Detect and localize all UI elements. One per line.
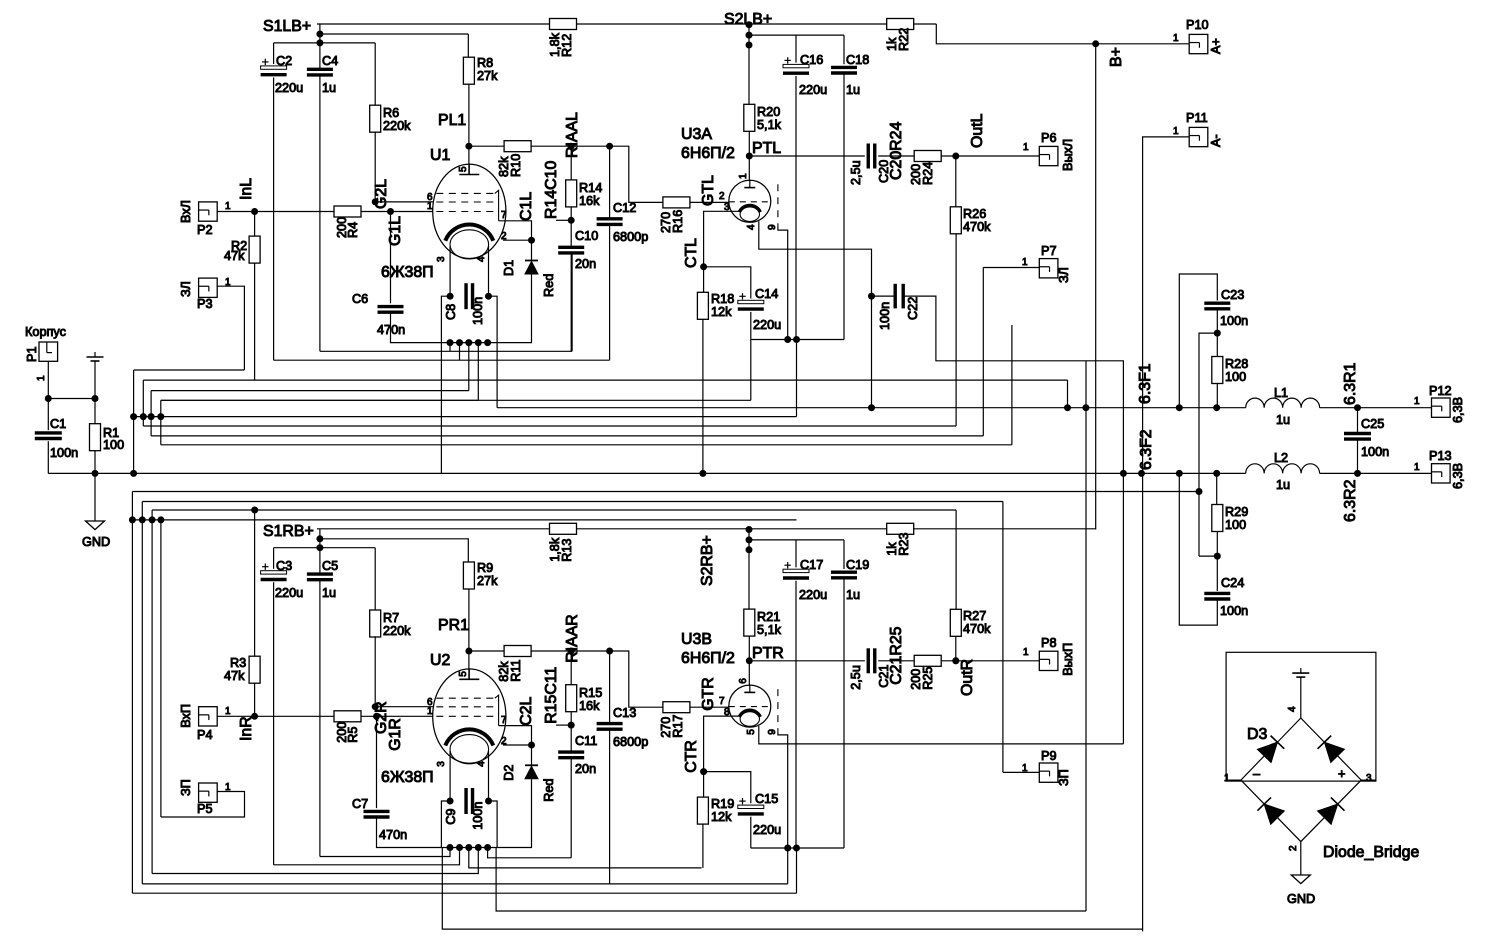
svg-text:R3: R3: [230, 656, 246, 670]
svg-text:P6: P6: [1041, 131, 1057, 145]
svg-text:27k: 27k: [477, 69, 498, 83]
svg-text:1: 1: [1023, 647, 1029, 658]
svg-text:R20: R20: [757, 105, 780, 119]
svg-text:R7: R7: [383, 611, 399, 625]
svg-text:A-: A-: [1209, 134, 1223, 147]
svg-text:R25: R25: [921, 667, 935, 690]
svg-text:R12: R12: [560, 34, 574, 57]
svg-text:R18: R18: [711, 292, 734, 306]
svg-text:C20R24: C20R24: [888, 122, 905, 180]
svg-text:PL1: PL1: [438, 112, 466, 129]
svg-text:1: 1: [1224, 773, 1230, 784]
svg-text:C9: C9: [444, 809, 458, 825]
svg-text:1: 1: [1023, 142, 1029, 153]
svg-text:R14: R14: [579, 181, 602, 195]
svg-text:1: 1: [1022, 257, 1028, 268]
svg-text:4: 4: [476, 761, 487, 767]
svg-text:1: 1: [225, 201, 231, 212]
svg-text:1u: 1u: [322, 586, 336, 600]
svg-text:PTR: PTR: [752, 645, 784, 662]
svg-text:U3A: U3A: [681, 126, 712, 143]
svg-text:ЗП: ЗП: [179, 779, 193, 796]
svg-text:7: 7: [501, 210, 507, 221]
svg-text:2: 2: [719, 191, 725, 202]
svg-text:1: 1: [1173, 33, 1179, 44]
svg-text:G1R: G1R: [387, 718, 404, 751]
svg-text:C16: C16: [800, 53, 823, 67]
svg-text:R6: R6: [383, 106, 399, 120]
svg-text:ВхП: ВхП: [179, 704, 193, 728]
svg-text:S1RB+: S1RB+: [263, 523, 314, 540]
svg-text:R28: R28: [1225, 357, 1248, 371]
svg-text:P9: P9: [1041, 749, 1057, 763]
svg-text:9: 9: [767, 729, 778, 735]
svg-text:C2L: C2L: [518, 696, 535, 725]
svg-text:7: 7: [501, 715, 507, 726]
svg-text:G2L: G2L: [373, 179, 390, 209]
svg-text:ЗЛ: ЗЛ: [1057, 267, 1071, 283]
svg-text:5: 5: [746, 729, 757, 735]
svg-text:C10: C10: [575, 229, 598, 243]
svg-text:C12: C12: [613, 201, 636, 215]
svg-text:1u: 1u: [322, 81, 336, 95]
svg-text:C7: C7: [352, 797, 368, 811]
svg-text:C19: C19: [846, 558, 869, 572]
svg-text:470n: 470n: [379, 828, 407, 842]
svg-text:C11: C11: [575, 734, 597, 748]
svg-text:6: 6: [738, 678, 749, 684]
svg-text:R16: R16: [671, 210, 685, 233]
svg-text:ЗП: ЗП: [1057, 769, 1071, 786]
svg-text:InL: InL: [238, 178, 255, 200]
svg-text:1: 1: [225, 706, 231, 717]
svg-text:12k: 12k: [711, 810, 732, 824]
svg-text:6Н6П/2: 6Н6П/2: [681, 650, 735, 667]
svg-text:5,1k: 5,1k: [757, 118, 782, 132]
svg-text:C6: C6: [352, 292, 368, 306]
svg-text:U1: U1: [430, 147, 450, 164]
svg-text:P2: P2: [197, 223, 213, 237]
svg-text:R27: R27: [963, 609, 986, 623]
svg-text:100n: 100n: [1361, 445, 1389, 459]
svg-text:PTL: PTL: [752, 140, 781, 157]
svg-text:100: 100: [1225, 370, 1246, 384]
svg-text:220u: 220u: [753, 318, 781, 332]
svg-text:D1: D1: [502, 260, 516, 276]
svg-text:R13: R13: [560, 539, 574, 562]
svg-text:B+: B+: [1108, 47, 1125, 67]
svg-text:16k: 16k: [579, 194, 600, 208]
svg-text:1u: 1u: [846, 83, 860, 97]
svg-text:6.3F2: 6.3F2: [1138, 429, 1155, 470]
svg-text:OutL: OutL: [969, 113, 986, 148]
svg-text:6,3В: 6,3В: [1451, 463, 1465, 489]
svg-text:C18: C18: [846, 53, 869, 67]
svg-text:5,1k: 5,1k: [757, 623, 782, 637]
svg-text:R14C10: R14C10: [543, 161, 560, 219]
svg-text:PR1: PR1: [438, 617, 469, 634]
svg-text:R21: R21: [757, 610, 780, 624]
svg-text:1: 1: [36, 375, 47, 381]
svg-text:C1L: C1L: [518, 192, 535, 221]
svg-text:P5: P5: [197, 802, 213, 816]
svg-text:220u: 220u: [753, 823, 781, 837]
svg-text:C5: C5: [322, 559, 338, 573]
svg-text:Корпус: Корпус: [25, 325, 67, 339]
svg-text:R8: R8: [477, 56, 493, 70]
svg-text:P3: P3: [197, 297, 213, 311]
svg-text:220u: 220u: [275, 81, 303, 95]
svg-text:GTR: GTR: [700, 677, 717, 711]
svg-text:GND: GND: [1287, 892, 1315, 906]
svg-text:R15C11: R15C11: [543, 667, 560, 724]
svg-text:C14: C14: [755, 287, 778, 301]
svg-text:7: 7: [719, 696, 725, 707]
svg-text:220u: 220u: [275, 586, 303, 600]
svg-text:5: 5: [458, 166, 469, 172]
svg-text:P1: P1: [25, 346, 39, 362]
svg-text:S2RB+: S2RB+: [699, 535, 716, 586]
svg-text:P8: P8: [1041, 636, 1057, 650]
svg-text:S1LB+: S1LB+: [263, 18, 311, 35]
svg-text:6.3R1: 6.3R1: [1342, 362, 1359, 405]
svg-text:R9: R9: [477, 561, 493, 575]
svg-text:R19: R19: [711, 797, 734, 811]
svg-text:220k: 220k: [383, 119, 411, 133]
svg-text:R29: R29: [1225, 505, 1248, 519]
svg-text:C1: C1: [50, 417, 66, 431]
svg-text:D3: D3: [1247, 726, 1267, 743]
svg-text:GTL: GTL: [700, 175, 717, 206]
svg-text:1: 1: [738, 173, 749, 179]
svg-text:470k: 470k: [963, 220, 991, 234]
svg-text:A+: A+: [1209, 38, 1223, 54]
svg-text:L2: L2: [1274, 451, 1288, 465]
svg-text:RIAAR: RIAAR: [564, 614, 581, 663]
svg-text:C21R25: C21R25: [888, 626, 905, 684]
svg-text:6,3В: 6,3В: [1451, 397, 1465, 423]
svg-text:20n: 20n: [575, 762, 596, 776]
svg-text:1u: 1u: [1276, 478, 1290, 492]
svg-text:C15: C15: [755, 792, 778, 806]
svg-text:R17: R17: [671, 715, 685, 738]
svg-text:CTL: CTL: [683, 238, 700, 268]
svg-text:6.3F1: 6.3F1: [1137, 363, 1154, 404]
svg-text:6Н6П/2: 6Н6П/2: [681, 145, 735, 162]
svg-text:1: 1: [427, 706, 433, 717]
svg-text:100n: 100n: [878, 302, 892, 330]
svg-text:5: 5: [458, 671, 469, 677]
svg-text:1: 1: [1414, 396, 1420, 407]
svg-text:G1L: G1L: [387, 216, 404, 246]
svg-text:R22: R22: [897, 28, 911, 51]
svg-text:1: 1: [1414, 462, 1420, 473]
svg-text:4: 4: [1287, 706, 1298, 712]
svg-text:47k: 47k: [224, 249, 245, 263]
svg-text:ВхЛ: ВхЛ: [179, 200, 193, 223]
svg-text:470k: 470k: [963, 622, 991, 636]
svg-text:470n: 470n: [377, 323, 405, 337]
svg-text:20n: 20n: [575, 257, 596, 271]
svg-text:+: +: [1338, 767, 1345, 781]
svg-text:CTR: CTR: [683, 740, 700, 773]
svg-text:RIAAL: RIAAL: [564, 112, 581, 158]
svg-text:R11: R11: [509, 659, 523, 681]
svg-text:R4: R4: [346, 222, 360, 238]
svg-text:6.3R2: 6.3R2: [1342, 479, 1359, 522]
svg-text:2,5u: 2,5u: [849, 160, 863, 185]
svg-text:100: 100: [1225, 518, 1246, 532]
svg-text:R15: R15: [579, 686, 602, 700]
svg-text:P11: P11: [1186, 111, 1208, 125]
svg-text:Diode_Bridge: Diode_Bridge: [1323, 844, 1419, 861]
svg-text:2: 2: [1288, 845, 1299, 851]
svg-text:C23: C23: [1221, 288, 1244, 302]
svg-text:220k: 220k: [383, 624, 411, 638]
svg-text:C4: C4: [322, 54, 338, 68]
svg-text:3: 3: [436, 256, 447, 262]
svg-text:6Ж38П: 6Ж38П: [381, 264, 434, 281]
svg-text:16k: 16k: [579, 699, 600, 713]
svg-text:C22: C22: [906, 297, 920, 320]
svg-text:100n: 100n: [1220, 604, 1248, 618]
svg-text:ВыхП: ВыхП: [1061, 643, 1075, 676]
svg-text:4: 4: [746, 224, 757, 230]
svg-text:P10: P10: [1186, 18, 1209, 32]
svg-text:6Ж38П: 6Ж38П: [381, 769, 434, 786]
svg-text:R26: R26: [963, 207, 986, 221]
svg-text:1u: 1u: [846, 588, 860, 602]
svg-text:InR: InR: [238, 716, 255, 741]
svg-text:C25: C25: [1361, 417, 1384, 431]
svg-text:220u: 220u: [799, 83, 827, 97]
svg-text:OutR: OutR: [959, 659, 976, 696]
svg-text:1: 1: [1173, 126, 1179, 137]
svg-text:–: –: [1253, 767, 1261, 781]
svg-text:1u: 1u: [1276, 413, 1290, 427]
svg-text:C13: C13: [613, 706, 636, 720]
svg-text:12k: 12k: [711, 305, 732, 319]
svg-text:P7: P7: [1041, 244, 1057, 258]
svg-text:R5: R5: [346, 727, 360, 743]
svg-text:1: 1: [427, 201, 433, 212]
svg-text:ВыхЛ: ВыхЛ: [1061, 139, 1075, 171]
svg-text:R10: R10: [509, 154, 523, 177]
svg-text:R24: R24: [921, 162, 935, 185]
svg-text:P13: P13: [1429, 449, 1452, 463]
svg-text:4: 4: [476, 256, 487, 262]
svg-text:D2: D2: [502, 765, 516, 781]
svg-text:C8: C8: [444, 304, 458, 320]
svg-text:C17: C17: [800, 558, 823, 572]
svg-text:100: 100: [103, 438, 124, 452]
svg-text:220u: 220u: [799, 588, 827, 602]
svg-text:47k: 47k: [224, 669, 245, 683]
svg-text:R23: R23: [897, 533, 911, 556]
svg-text:C24: C24: [1221, 576, 1244, 590]
svg-text:P12: P12: [1429, 384, 1452, 398]
svg-text:2,5u: 2,5u: [849, 665, 863, 690]
svg-text:9: 9: [767, 224, 778, 230]
svg-text:3: 3: [1366, 773, 1372, 784]
svg-text:100n: 100n: [1220, 314, 1248, 328]
svg-text:3: 3: [436, 761, 447, 767]
svg-text:6800p: 6800p: [613, 735, 648, 749]
svg-text:ЗЛ: ЗЛ: [179, 281, 193, 297]
svg-text:P4: P4: [197, 728, 213, 742]
svg-text:100n: 100n: [50, 446, 78, 460]
svg-text:27k: 27k: [477, 574, 498, 588]
svg-text:6800p: 6800p: [613, 230, 648, 244]
svg-text:Red: Red: [542, 779, 556, 802]
svg-text:U3B: U3B: [681, 631, 712, 648]
svg-text:Red: Red: [542, 274, 556, 297]
svg-text:GND: GND: [82, 535, 110, 549]
svg-text:U2: U2: [430, 652, 450, 669]
